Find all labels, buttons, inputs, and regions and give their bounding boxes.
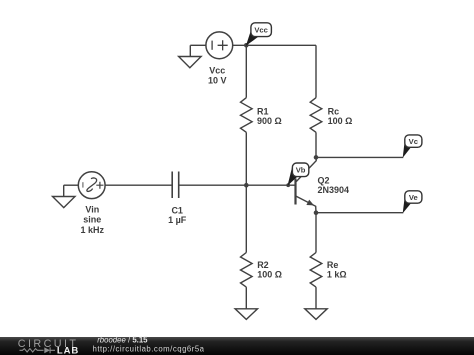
junction node base [244, 183, 249, 188]
footer bar [0, 336, 474, 355]
junction node collector [314, 155, 319, 160]
wire emitter node to Ve flag [316, 212, 403, 214]
wire emitter to Re [315, 213, 317, 253]
voltage source V1 circle [206, 32, 233, 59]
Vin sine glyph [87, 178, 97, 191]
svg-text:rboodee / 5.15: rboodee / 5.15 [97, 336, 148, 345]
wire R2 to ground [245, 287, 247, 309]
wire Rc to collector node [315, 132, 317, 157]
ground G1 (Vcc source) [189, 45, 191, 56]
logo resistor-diode glyph [20, 347, 56, 353]
svg-text:1 kHz: 1 kHz [81, 225, 105, 235]
svg-text:Rc: Rc [328, 106, 340, 116]
node dot at base (Vb anchor) [286, 183, 290, 187]
node flag Vc [403, 135, 422, 158]
resistor Rc [310, 98, 322, 133]
Vin minus bar [82, 182, 84, 187]
source Vin circle [78, 172, 105, 199]
svg-text:100 Ω: 100 Ω [328, 116, 353, 126]
wire base rail left of Vin [64, 184, 79, 186]
wire Vin to C1 [105, 184, 172, 186]
svg-text:Q2: Q2 [318, 176, 330, 186]
wire top rail source to Rc column [233, 44, 316, 46]
svg-text:C1: C1 [171, 205, 183, 215]
Q2 emitter arrow [306, 200, 314, 206]
svg-text:sine: sine [83, 215, 101, 225]
svg-text:LAB: LAB [57, 345, 79, 355]
svg-text:Vcc: Vcc [209, 66, 225, 76]
junction node at Vcc [244, 43, 249, 48]
node flag Ve [403, 191, 422, 213]
node flag Vb [288, 163, 309, 186]
svg-text:Vb: Vb [296, 166, 306, 175]
svg-text:R2: R2 [257, 260, 269, 270]
Q2 collector lead [296, 157, 316, 181]
ground G2 (below R2) [235, 309, 257, 320]
svg-text:2N3904: 2N3904 [318, 185, 350, 195]
Vin plus sign [96, 182, 103, 189]
svg-text:Re: Re [327, 260, 339, 270]
wire C1 to base [179, 184, 295, 186]
logo diode triangle [44, 347, 50, 353]
ground G4 (below Re) [305, 309, 327, 320]
svg-text:R1: R1 [257, 106, 269, 116]
svg-text:100 Ω: 100 Ω [257, 270, 282, 280]
node flag Vcc [246, 23, 272, 46]
resistor R2 [241, 253, 253, 288]
resistor Re [310, 253, 322, 288]
wire Rc column upper [315, 45, 317, 97]
wire collector node to Vc flag [316, 156, 403, 158]
Q2 emitter lead [296, 196, 316, 213]
svg-text:Vcc: Vcc [254, 26, 268, 35]
V1 minus bar [211, 41, 213, 50]
wire Re to ground [315, 287, 317, 309]
V1 plus sign [218, 40, 228, 50]
svg-text:900 Ω: 900 Ω [257, 116, 282, 126]
svg-text:Ve: Ve [409, 193, 418, 202]
wire R1 column upper [245, 45, 247, 97]
wire top rail left of source [190, 44, 206, 46]
wire R1 to base rail [245, 132, 247, 252]
svg-text:http://circuitlab.com/cqg6r5a: http://circuitlab.com/cqg6r5a [93, 344, 205, 353]
capacitor C1 [171, 172, 173, 199]
svg-text:Vin: Vin [85, 205, 99, 215]
resistor R1 [241, 98, 253, 133]
transistor Q2 base bar [294, 179, 296, 205]
ground G3 (Vin source) [63, 185, 65, 196]
svg-text:10 V: 10 V [208, 75, 227, 85]
svg-text:1 kΩ: 1 kΩ [327, 270, 347, 280]
junction node emitter [314, 210, 319, 215]
svg-text:Vc: Vc [409, 137, 418, 146]
svg-text:1 µF: 1 µF [168, 215, 187, 225]
